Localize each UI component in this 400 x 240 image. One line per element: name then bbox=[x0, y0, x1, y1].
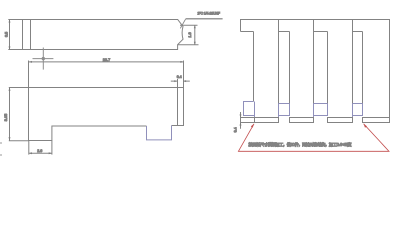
svg-text:6.5: 6.5 bbox=[4, 32, 8, 37]
dimension 3.05 top extension bbox=[9, 87, 29, 89]
dimension 6.5 arrow top bbox=[9, 20, 11, 23]
right view top edge and outer corners bbox=[241, 20, 390, 118]
extension line bottom left bbox=[8, 49, 22, 51]
dimension 1.6 line bbox=[194, 25, 196, 44]
svg-text:3.05: 3.05 bbox=[4, 114, 8, 121]
dimension 0.4 right view extensions bbox=[240, 118, 255, 123]
right view slot pair 4 bbox=[353, 20, 363, 104]
svg-text:2*C 1/4-28UNF: 2*C 1/4-28UNF bbox=[198, 11, 221, 15]
svg-text:按图纸尺寸模拟加工，做20件，两边对称结构，加工0.4×45: 按图纸尺寸模拟加工，做20件，两边对称结构，加工0.4×45度 bbox=[249, 141, 353, 148]
svg-text:2.6: 2.6 bbox=[37, 149, 42, 153]
right view foot box 4 bbox=[363, 118, 390, 123]
dimension 3.05 bottom extension bbox=[9, 140, 29, 142]
dimension 0.4 right view line bbox=[240, 112, 242, 129]
front view outline bbox=[29, 88, 184, 141]
right view foot box 1 bbox=[255, 118, 279, 123]
dimension 23.7 left extension bbox=[28, 61, 30, 88]
extension line notch lower bbox=[178, 44, 199, 46]
blue stub pocket1 bbox=[254, 116, 256, 118]
top view inner vertical line bbox=[30, 20, 32, 50]
center cross marker bbox=[33, 48, 54, 70]
dimension 1.6 arrow bottom bbox=[194, 42, 196, 45]
red callout triangle bbox=[238, 124, 389, 152]
right view long vertical 1 bbox=[253, 32, 255, 102]
front view blue pocket bbox=[147, 126, 172, 140]
svg-text:1.6: 1.6 bbox=[188, 32, 192, 37]
leader line to thread note bbox=[180, 19, 186, 29]
right view foot box 3 bbox=[328, 118, 353, 123]
dimension 23.7 line bbox=[29, 61, 184, 63]
dimension 1.6 arrow top bbox=[194, 25, 196, 28]
red callout arrowheads bbox=[251, 124, 254, 128]
svg-text:0.4: 0.4 bbox=[234, 127, 238, 132]
blue stub pocket3 bbox=[313, 116, 315, 118]
dimension 23.7 right extension bbox=[183, 61, 185, 88]
dimension 2.6 line bbox=[29, 152, 52, 154]
dimension 6.5 arrow bottom bbox=[9, 47, 11, 50]
right view blue pocket 4 bbox=[353, 104, 363, 116]
dimension 6.5 line bbox=[9, 20, 11, 50]
right view blue pocket 3 bbox=[314, 104, 328, 116]
extension line notch upper bbox=[180, 24, 198, 26]
right view slot pair 2 bbox=[279, 20, 290, 104]
dimension 23.7 arrow right bbox=[180, 61, 183, 63]
dimension 3.05 line bbox=[9, 88, 11, 141]
right view foot box 2 bbox=[290, 118, 314, 123]
right view blue pocket 1 bbox=[244, 102, 255, 116]
svg-text:23.7: 23.7 bbox=[103, 58, 110, 62]
top view outline bbox=[23, 20, 184, 50]
svg-text:0.4: 0.4 bbox=[177, 75, 182, 79]
front view right inner vertical bbox=[177, 88, 179, 126]
left edge speck 1 bbox=[0, 142, 2, 144]
dimension 0.4 front arrows bbox=[171, 80, 190, 82]
right view slot pair 3 bbox=[314, 20, 328, 104]
dimension 2.6 extensions bbox=[29, 141, 52, 155]
blue stub pocket2 bbox=[278, 116, 280, 118]
dimension 23.7 arrow left bbox=[29, 61, 32, 63]
right view blue pocket 2 bbox=[279, 104, 290, 116]
extension line top left bbox=[8, 19, 22, 21]
right view shoulder 1 bbox=[241, 31, 254, 33]
blue stub pocket4 bbox=[352, 116, 354, 118]
left edge speck 2 bbox=[0, 154, 2, 156]
dimension 0.4 front left extension bbox=[177, 79, 179, 88]
